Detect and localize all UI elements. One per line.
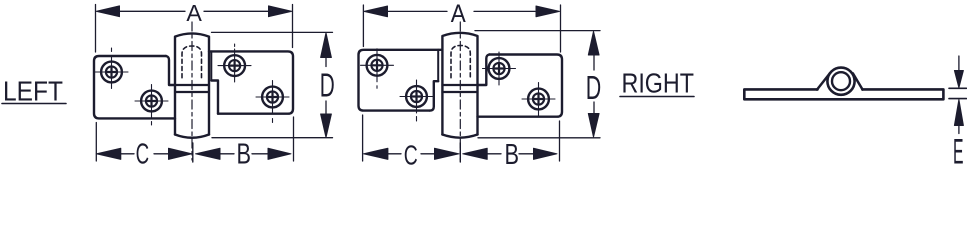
dim C (right hinge) right arrow <box>435 148 460 159</box>
centerline tick at bowtie (right hinge) <box>459 143 461 162</box>
barrel bottom arc (right hinge) <box>442 135 477 138</box>
dim A (right hinge) right arrow <box>536 6 560 17</box>
barrel knuckle seam lines (left hinge) <box>175 84 209 86</box>
left plate (left hinge) <box>94 56 175 118</box>
svg-text:C: C <box>136 138 150 167</box>
dim C/B (right hinge) extension lines <box>362 115 364 161</box>
dim A (right hinge) label <box>451 0 466 28</box>
dim E tick top <box>949 87 967 89</box>
left plate gap edge (left hinge) <box>166 56 175 85</box>
dim A (left hinge) right arrow <box>269 6 293 17</box>
dim C (right hinge) label <box>404 139 418 170</box>
screw hole R4 (right hinge, right plate lower) <box>522 83 555 116</box>
side view knuckle outer ring <box>827 68 854 95</box>
dim D (right hinge) bottom arrow <box>588 114 599 138</box>
dim C (left hinge) dimension line <box>119 153 134 155</box>
dim A (left hinge) dimension line <box>118 10 185 12</box>
barrel knuckle seam lines (right hinge) <box>442 84 477 86</box>
dim A (right hinge) left arrow <box>364 6 388 17</box>
screw hole R1 (right hinge, left plate upper) <box>361 49 394 89</box>
dim C (left hinge) left arrow <box>96 148 121 159</box>
dim D (left hinge) dimension line <box>325 56 327 67</box>
dim B (left hinge) label <box>237 139 252 171</box>
dim D (right hinge) top arrow <box>588 31 599 55</box>
left plate bend line (right hinge) <box>437 50 439 81</box>
right plate gap edge (left hinge) <box>211 81 218 114</box>
dim A (left hinge) label <box>186 0 202 26</box>
svg-text:B: B <box>237 139 252 168</box>
hidden pin hole dashed (right hinge) <box>451 46 470 78</box>
right plate gap edge (right hinge) <box>478 55 490 86</box>
dim E bottom arrow <box>954 100 963 126</box>
dim A (left hinge) left arrow <box>96 6 120 17</box>
dim A (right hinge) extension lines <box>362 5 364 47</box>
dim D (right hinge) extension lines <box>475 30 600 32</box>
dim B (right hinge) dimension line <box>486 153 501 155</box>
side view knuckle inner ring <box>832 72 850 90</box>
screw hole L4 (left hinge, right plate lower) <box>256 81 289 123</box>
side view bar <box>744 89 943 99</box>
barrel centerline (right hinge) <box>459 22 461 160</box>
screw hole R2 (right hinge, left plate lower) <box>400 80 433 121</box>
dim D (left hinge) label <box>320 67 335 104</box>
dim B (right hinge) left arrow <box>463 148 488 159</box>
right plate (right hinge) <box>478 55 563 117</box>
dim D (right hinge) label <box>586 69 602 106</box>
dim C (left hinge) right arrow <box>169 148 193 159</box>
side view right wrap diagonal <box>853 73 863 89</box>
dim E top arrow <box>954 71 963 88</box>
dim B (left hinge) dimension line <box>219 153 234 155</box>
dim E line top <box>958 56 960 72</box>
dim C (left hinge) label <box>136 138 150 170</box>
dim B (right hinge) label <box>505 139 520 171</box>
dim D (left hinge) extension lines <box>212 31 333 33</box>
side view left wrap diagonal <box>817 73 830 90</box>
svg-text:C: C <box>404 139 418 167</box>
dim A (right hinge) dimension line <box>386 10 447 12</box>
right label RIGHT <box>622 68 695 99</box>
dim D (right hinge) dimension line <box>593 54 595 70</box>
dim B (left hinge) left arrow <box>196 148 221 159</box>
right label underline <box>620 96 694 98</box>
left label underline <box>2 103 66 105</box>
dim C/B (left hinge) extension lines <box>95 123 97 162</box>
dim B (right hinge) right arrow <box>534 148 558 159</box>
dim A (left hinge) extension lines <box>95 5 97 53</box>
screw hole R3 (right hinge, right plate upper) <box>483 52 516 85</box>
svg-text:RIGHT: RIGHT <box>622 68 695 99</box>
dim E label <box>953 132 964 171</box>
barrel bottom arc (left hinge) <box>175 135 209 138</box>
dim D (left hinge) top arrow <box>321 33 332 58</box>
left plate (right hinge) <box>359 50 443 111</box>
svg-text:B: B <box>505 139 520 167</box>
barrel (right hinge) <box>442 33 477 135</box>
right plate bend line (left hinge) <box>210 51 212 80</box>
dim C (right hinge) left arrow <box>363 148 388 159</box>
svg-text:D: D <box>586 69 602 106</box>
svg-text:A: A <box>451 0 466 28</box>
dim E line bottom <box>958 124 960 134</box>
dim C (right hinge) dimension line <box>386 153 401 155</box>
dim E tick bottom <box>949 98 967 100</box>
hidden pin hole dashed (left hinge) <box>182 46 202 78</box>
barrel centerline (left hinge) <box>191 22 193 160</box>
barrel (left hinge) <box>175 33 209 134</box>
left plate gap edge (right hinge) <box>430 81 438 110</box>
centerline tick at bowtie (left hinge) <box>192 143 194 162</box>
svg-text:A: A <box>186 0 202 26</box>
left label LEFT <box>3 76 63 107</box>
svg-text:E: E <box>953 132 964 167</box>
screw hole L3 (left hinge, right plate upper) <box>218 44 251 82</box>
screw hole L1 (left hinge, left plate upper) <box>95 48 128 89</box>
dim B (left hinge) right arrow <box>268 148 291 159</box>
screw hole L2 (left hinge, left plate lower) <box>135 85 168 126</box>
dim D (left hinge) bottom arrow <box>321 114 332 138</box>
right plate (left hinge) <box>209 51 293 113</box>
svg-text:LEFT: LEFT <box>3 76 63 107</box>
svg-text:D: D <box>320 67 335 104</box>
